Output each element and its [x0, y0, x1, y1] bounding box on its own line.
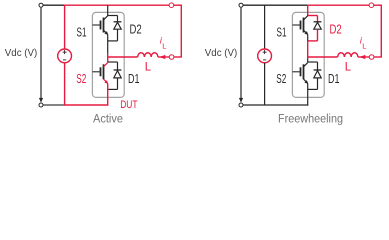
svg-text:D2: D2 — [330, 22, 342, 36]
wire emitter S1 black (Freewheeling) — [307, 34, 309, 41]
wire bottom rail (Freewheeling) — [243, 104, 308, 106]
wire jog bottom D2 red (Freewheeling) — [308, 40, 318, 42]
svg-text:D1: D1 — [128, 72, 140, 86]
node probe point top rail (Active) — [169, 3, 174, 8]
wire jog top D1 (Active) — [108, 61, 118, 63]
voltage arrow Vdc (Active) — [39, 8, 43, 103]
wire jog top D2 red (Freewheeling) — [308, 15, 318, 17]
wire top rail black segment (Freewheeling) — [243, 4, 308, 6]
wire top rail right stub (Freewheeling) — [374, 4, 382, 6]
node probe point mid wire (Active) — [169, 55, 174, 60]
svg-text:DUT: DUT — [120, 99, 138, 111]
wire jog bottom D1 (Active) — [108, 88, 118, 90]
label iL (Freewheeling) — [360, 36, 366, 51]
svg-text:Vdc (V): Vdc (V) — [205, 47, 238, 59]
svg-text:S2: S2 — [276, 72, 286, 86]
wire probe to right corner (Active) — [174, 56, 182, 58]
svg-text:L: L — [162, 42, 166, 51]
current arrow iL (Freewheeling) — [359, 55, 365, 59]
wire collector entry S1 (Active) — [107, 5, 109, 15]
svg-text:Freewheeling: Freewheeling — [278, 114, 343, 126]
label iL (Active) — [160, 36, 166, 51]
wire collector entry S1 red (Freewheeling) — [307, 5, 309, 16]
terminal top-left (Freewheeling) — [239, 3, 243, 7]
inductor L (Active) — [138, 53, 158, 57]
IGBT S1 (Active) — [92, 16, 108, 35]
wire probe to right corner (Freewheeling) — [374, 56, 382, 58]
svg-text:D2: D2 — [130, 22, 142, 36]
wire jog top D1 (Freewheeling) — [308, 61, 318, 63]
svg-text:D1: D1 — [328, 72, 340, 86]
wire bottom rail red segment (Active) — [64, 104, 108, 106]
wire jog top D2 (Active) — [108, 15, 118, 17]
wire top rail red segment (Freewheeling) — [308, 4, 370, 6]
terminal bottom-left (Active) — [39, 103, 43, 107]
wire jog bottom D1 (Freewheeling) — [308, 88, 318, 90]
terminal top-left (Active) — [39, 3, 43, 7]
wire jog bottom D2 (Active) — [108, 40, 118, 42]
wire top rail right stub (Active) — [174, 4, 182, 6]
wire bottom rail dark segment (Active) — [43, 104, 65, 106]
node probe point top rail (Freewheeling) — [369, 3, 374, 8]
diode D2 (Active) — [114, 16, 122, 41]
current arrow iL (Active) — [159, 55, 165, 59]
voltage arrow Vdc (Freewheeling) — [239, 8, 243, 103]
wire midpoint to inductor red (Freewheeling) — [308, 56, 338, 58]
svg-text:S1: S1 — [77, 26, 87, 40]
IGBT S1 (Freewheeling) — [292, 16, 308, 35]
wire inductor to probe (Active) — [158, 56, 170, 58]
voltage source V1 (Freewheeling) — [258, 5, 272, 105]
wire right vertical (Active) — [180, 5, 182, 57]
wire midpoint down black (Freewheeling) — [307, 59, 309, 63]
voltage source V1 (Active) — [58, 5, 72, 105]
wire midpoint node red (Freewheeling) — [307, 41, 309, 59]
inductor L (Freewheeling) — [338, 53, 358, 57]
diode D1 (Freewheeling) — [314, 62, 322, 89]
wire midpoint to inductor red (Active) — [108, 56, 138, 58]
wire inductor to probe (Freewheeling) — [358, 56, 370, 58]
diode D1 (Active) — [114, 62, 122, 89]
svg-text:S1: S1 — [277, 26, 287, 40]
wire top rail red segment (Active) — [64, 4, 170, 6]
wire emitter S1 to midpoint black (Active) — [107, 34, 109, 53]
svg-text:L: L — [145, 61, 152, 73]
IGBT S2 (Active, conducting) — [92, 62, 108, 84]
wire emitter S2 to bottom rail black (Freewheeling) — [307, 83, 309, 105]
wire emitter S2 to bottom rail red (Active) — [107, 83, 109, 105]
svg-text:Vdc (V): Vdc (V) — [5, 47, 38, 59]
DUT module box (Freewheeling) — [292, 12, 324, 97]
IGBT S2 (Freewheeling) — [292, 62, 308, 84]
diode D2 (Freewheeling, conducting) — [314, 16, 322, 41]
svg-text:S2: S2 — [76, 72, 86, 86]
wire top rail black segment (Active) — [43, 4, 65, 6]
svg-text:L: L — [345, 61, 352, 73]
svg-text:Active: Active — [93, 114, 123, 126]
DUT module box (Active) — [92, 12, 124, 97]
svg-text:L: L — [362, 42, 366, 51]
terminal bottom-left (Freewheeling) — [239, 103, 243, 107]
node probe point mid wire (Freewheeling) — [369, 55, 374, 60]
wire midpoint node red (Active) — [107, 54, 109, 62]
wire right vertical (Freewheeling) — [380, 5, 382, 57]
